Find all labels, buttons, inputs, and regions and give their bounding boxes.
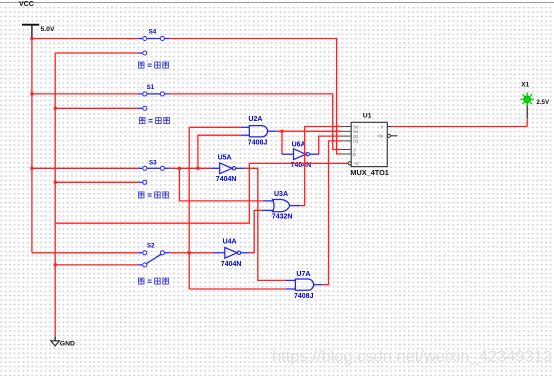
svg-text:U6A: U6A	[292, 142, 306, 149]
key label S4	[138, 62, 168, 68]
switch S1	[32, 84, 170, 124]
junction VCC bus / S4 row	[30, 37, 33, 40]
op U3A OR gate 7432N	[272, 191, 293, 221]
svg-text:7408J: 7408J	[294, 293, 314, 300]
svg-text:GND: GND	[60, 340, 75, 347]
op U2A AND gate 7408J	[248, 116, 268, 147]
wire S3 pole to U5A input	[170, 167, 211, 169]
op U4A inverter 7404N	[221, 239, 242, 268]
pin ~G bubble	[348, 162, 351, 165]
probe X1	[520, 82, 550, 107]
svg-text:~W: ~W	[377, 134, 385, 139]
pin labels	[353, 124, 384, 166]
svg-text:S2: S2	[147, 242, 155, 249]
svg-text:Y: Y	[381, 124, 384, 129]
junction GND bus / S3 bottom throw	[54, 181, 57, 184]
wire U2A output branch down to U6A input	[281, 131, 283, 154]
wire U6A output up to MUX S2 pin	[310, 153, 319, 155]
svg-text:S3: S3	[353, 139, 359, 144]
wire S1 bottom throw stub	[55, 106, 147, 110]
svg-text:https://blog.csdn.net/weixin_4: https://blog.csdn.net/weixin_42349313	[272, 349, 552, 366]
switch S4	[32, 28, 170, 68]
svg-text:5.0V: 5.0V	[41, 26, 55, 33]
svg-text:7404N: 7404N	[216, 176, 237, 183]
svg-text:7408J: 7408J	[248, 140, 268, 147]
svg-text:2.5V: 2.5V	[536, 99, 550, 106]
svg-text:U7A: U7A	[296, 271, 310, 278]
pin stubs left	[342, 127, 351, 155]
svg-text:VCC: VCC	[19, 1, 34, 8]
wire GND bus vertical	[54, 53, 56, 337]
svg-text:7404N: 7404N	[221, 261, 242, 268]
svg-text:X1: X1	[521, 82, 529, 89]
svg-text:MUX_4TO1: MUX_4TO1	[350, 170, 389, 177]
junction VCC bus / S3 row	[30, 167, 33, 170]
wire S3 bottom throw stub	[55, 180, 147, 184]
junction U2A output / U6A input branch	[281, 130, 284, 133]
switch S3	[32, 159, 170, 198]
wire S2 riser: up to U2A top input, down to U7A bottom input	[188, 127, 190, 289]
pin ~W bubble and stub	[387, 134, 390, 137]
svg-text:U4A: U4A	[223, 239, 237, 246]
svg-text:U2A: U2A	[248, 116, 262, 123]
op U6A inverter 7404N	[291, 142, 312, 169]
svg-text:S3: S3	[149, 159, 157, 166]
key label S1	[139, 118, 169, 124]
wire U3A output up to MUX S0 pin	[290, 205, 301, 207]
VCC power symbol	[22, 25, 39, 38]
wire S3 branch up to U2A bottom input	[198, 135, 241, 168]
wire ~G net from GND bus to MUX ~G	[55, 163, 348, 223]
svg-text:U3A: U3A	[274, 191, 288, 198]
wire U7A output up to MUX S3 pin	[314, 284, 324, 286]
op U7A AND gate 7408J	[294, 271, 314, 300]
junction GND bus / S2 bottom throw	[54, 263, 57, 266]
wire S4 bottom throw stub	[55, 51, 147, 55]
key label S2	[138, 278, 168, 284]
svg-text:S1: S1	[147, 84, 155, 91]
pin Y stub	[387, 126, 391, 128]
wire S2 pole to U4A input	[170, 252, 213, 254]
wire VCC to S4 top throw	[32, 38, 138, 40]
svg-text:~G: ~G	[353, 161, 360, 166]
junction S3 net / U3A branch	[178, 167, 181, 170]
wire S2 bottom throw stub	[55, 263, 147, 267]
svg-text:7432N: 7432N	[272, 214, 293, 221]
wire U4A output up to U3A bottom input	[241, 252, 250, 254]
wire S4 pole to B (corner)	[170, 39, 342, 155]
svg-text:U5A: U5A	[218, 155, 232, 162]
junction GND bus / S1 bottom throw	[54, 107, 57, 110]
wire S1 pole to A (corner)	[170, 94, 342, 150]
wire S3 branch down to U3A top input	[179, 168, 263, 201]
junction VCC bus / S1 row	[30, 92, 33, 95]
key label S3	[138, 192, 168, 198]
junction S3 net / U2A branch	[196, 167, 199, 170]
wire VCC bus vertical	[31, 37, 33, 253]
svg-text:U1: U1	[363, 113, 372, 120]
ground	[51, 337, 75, 348]
top border line	[0, 2, 554, 4]
svg-text:B: B	[353, 152, 356, 157]
junction S2 net riser	[188, 251, 191, 254]
svg-text:S4: S4	[149, 28, 157, 35]
wire U2A output to MUX S1 pin	[268, 130, 277, 132]
op U5A inverter 7404N	[216, 155, 237, 184]
wire U5A output down to U7A top input	[236, 167, 246, 169]
mux U1 MUX_4TO1	[342, 113, 398, 177]
switch S2	[32, 242, 170, 284]
wire Y output to probe	[391, 126, 527, 128]
